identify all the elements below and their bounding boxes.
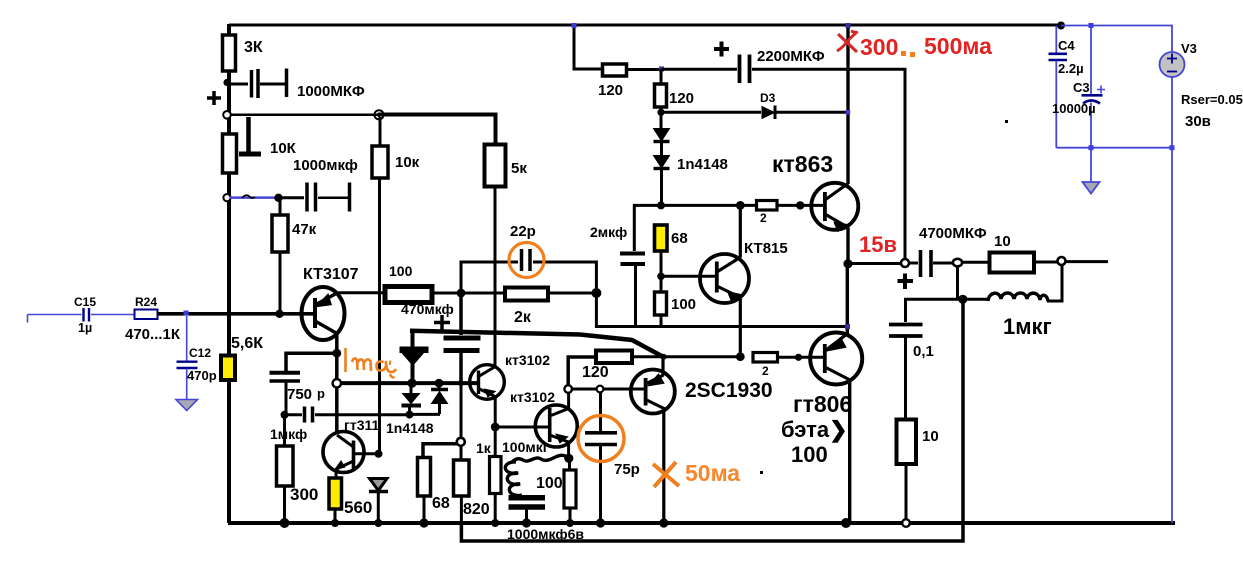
- svg-text:68: 68: [432, 495, 450, 512]
- capacitor 1000mkf6v: [507, 498, 584, 542]
- wire blue top: [1061, 26, 1172, 53]
- resistor 820: [454, 445, 490, 523]
- wire 120 to node: [627, 68, 663, 71]
- node open junction speaker out: [1058, 257, 1066, 265]
- capacitor 2mkf branch: [590, 205, 661, 326]
- node junction driver node X: [661, 354, 667, 360]
- svg-text:10: 10: [922, 428, 939, 445]
- svg-text:р: р: [317, 386, 325, 401]
- wire gt806 collector and emitter verticals: [845, 264, 850, 524]
- wire kt863 emitter to 15v node: [846, 228, 849, 264]
- wire blue bottom row: [1056, 145, 1174, 150]
- diode zener at 379: [369, 479, 388, 524]
- svg-text:30в: 30в: [1185, 113, 1211, 130]
- wire 2k to feedback node: [548, 292, 596, 295]
- svg-text:Rser=0.05: Rser=0.05: [1181, 92, 1243, 107]
- wire node383 row: [341, 381, 478, 385]
- resistor 10 output: [962, 233, 1034, 273]
- wire top positive rail: [229, 24, 1061, 27]
- svg-text:10к: 10к: [395, 154, 420, 171]
- svg-text:4700МКФ: 4700МКФ: [919, 225, 987, 242]
- svg-text:50ма: 50ма: [685, 460, 740, 486]
- svg-text:750: 750: [287, 386, 312, 403]
- wire blue link to 47k node: [230, 195, 276, 198]
- node open junction base drive: [564, 385, 572, 393]
- node junction 470mkf bottom on 383: [458, 380, 464, 439]
- wire input to C15: [28, 314, 82, 316]
- node junction dot with ring at 379,115: [374, 110, 383, 119]
- node junction 47k top: [274, 194, 282, 202]
- resistor 2k: [505, 288, 548, 327]
- svg-text:1000МКФ: 1000МКФ: [297, 83, 365, 100]
- inductor 100mkg: [502, 439, 569, 497]
- svg-text:68: 68: [671, 230, 688, 247]
- node junction kt863 base wire: [796, 201, 804, 209]
- svg-text:100: 100: [791, 442, 828, 467]
- node junction diode chain bottom: [657, 201, 665, 209]
- wire kt3102a emitter down: [494, 397, 497, 428]
- wire kt3102b collector up to node: [567, 392, 570, 409]
- ground symbol C3: [1083, 148, 1100, 194]
- resistor 120 driver: [582, 351, 632, 382]
- node open junction output: [901, 259, 909, 267]
- svg-text:1000мкф: 1000мкф: [293, 157, 358, 174]
- wire bias row to 5k: [230, 115, 496, 145]
- svg-text:КТ815: КТ815: [744, 240, 788, 257]
- node junction emitter 1k: [491, 423, 500, 432]
- annotation red 300 500ma: [860, 33, 992, 60]
- wire thick bias diagonal: [410, 331, 664, 357]
- resistor 120 vertical: [655, 69, 695, 112]
- wire C15 to R24: [91, 314, 134, 316]
- node open junction 197.6 blue: [223, 194, 230, 201]
- svg-text:1µ: 1µ: [78, 321, 92, 335]
- node junction 47k bottom on base wire: [275, 310, 283, 318]
- node junction 120 top: [659, 67, 664, 72]
- svg-text:100: 100: [536, 475, 563, 492]
- resistor 100 at 661: [655, 292, 697, 327]
- wire V3 negative down: [1171, 77, 1173, 523]
- resistor 100 emitter: [385, 263, 454, 317]
- svg-text:300: 300: [290, 485, 318, 504]
- annotation red cross 300-500ma: [837, 31, 858, 52]
- svg-text:22р: 22р: [510, 223, 536, 240]
- svg-text:5,6К: 5,6К: [231, 335, 263, 352]
- capacitor 1000MKF top: [228, 69, 365, 101]
- capacitor 1000mkf second: [282, 157, 358, 212]
- wire output stub: [1066, 260, 1109, 263]
- capacitor 75p with orange circle: [578, 392, 640, 523]
- capacitor C12 470p: [177, 316, 217, 399]
- capacitor C3 10000u: [1052, 26, 1105, 148]
- svg-text:47к: 47к: [292, 221, 317, 238]
- node junction emitter inductor: [564, 454, 573, 463]
- potentiometer 10K: [223, 117, 297, 173]
- svg-text:2: 2: [762, 364, 769, 378]
- svg-text:3К: 3К: [244, 39, 263, 56]
- wire drop from rail to 120: [574, 25, 602, 69]
- wire left rail vertical: [227, 24, 231, 523]
- resistor 2 lower: [753, 353, 778, 379]
- resistor 3K: [223, 35, 263, 71]
- wire node X to kt815 emitter node: [632, 355, 740, 358]
- node open junction zobel ground: [902, 519, 910, 527]
- wire KT3107 emitter to 100 resistor: [337, 291, 385, 294]
- transistor kt3102 first: [470, 352, 551, 399]
- wire jog to 68 resistor: [423, 444, 457, 457]
- svg-text:820: 820: [463, 501, 490, 518]
- wire 2ohm to kt863 base: [777, 204, 824, 207]
- wire node to 2ohm: [661, 204, 756, 207]
- svg-text:100мкг: 100мкг: [502, 439, 549, 455]
- node junction below 3K: [223, 79, 230, 86]
- port input tick: [27, 315, 29, 323]
- svg-text:100: 100: [671, 296, 696, 313]
- resistor 120 supply: [598, 64, 627, 99]
- wire KT3107 collector down: [335, 334, 339, 434]
- node junction bottom rail dots: [280, 518, 852, 528]
- wire kt863 collector rail: [846, 23, 851, 184]
- node junction rail end: [1057, 22, 1065, 30]
- svg-text:2мкф: 2мкф: [590, 224, 627, 240]
- svg-text:гт311: гт311: [344, 417, 379, 433]
- svg-text:C15: C15: [74, 295, 96, 309]
- svg-text:бэта❯: бэта❯: [781, 417, 848, 443]
- resistor 560 yellow: [329, 470, 372, 523]
- node blue speck D3 junction: [846, 110, 851, 115]
- node junction kt815 emitter bottom: [736, 352, 745, 361]
- transistor gt311 pnp: [323, 417, 379, 473]
- wire gt311 base to 379 rail: [354, 450, 383, 458]
- node open junction KT3107 collector to wire383: [333, 379, 341, 387]
- svg-text:C3: C3: [1073, 80, 1090, 95]
- transistor gt806 pnp: [781, 333, 862, 468]
- wire base node to 2SC1930: [572, 388, 645, 391]
- svg-text:1000мкф6в: 1000мкф6в: [507, 526, 584, 542]
- node junction collector 750p tap: [332, 349, 341, 358]
- annotation red 15v: [859, 232, 897, 257]
- svg-text:300: 300: [860, 34, 898, 60]
- resistor 10k second: [372, 117, 420, 453]
- transistor 2SC1930: [631, 370, 773, 414]
- inductor 1mkg parallel: [958, 265, 1063, 339]
- annotation stray dots: [600, 120, 1008, 474]
- resistor 68 lower: [418, 458, 450, 524]
- wire to 750p: [286, 353, 337, 371]
- wire to kt815 base: [661, 275, 717, 278]
- node open junction at 114.5: [223, 111, 231, 119]
- resistor 68 yellow: [655, 225, 688, 292]
- svg-text:2: 2: [760, 211, 767, 225]
- annotation orange cross 50ma: [653, 460, 740, 487]
- annotation orange 1ma handwritten: [346, 348, 397, 377]
- capacitor C15 1u: [74, 295, 96, 335]
- node junction D1 bottom: [407, 379, 416, 388]
- svg-text:кт863: кт863: [772, 151, 833, 177]
- diode D3 lower right up: [386, 379, 448, 436]
- diode pair 1n4148 series: [654, 112, 728, 204]
- capacitor 2200MKF: [662, 42, 905, 261]
- svg-text:470...1К: 470...1К: [125, 326, 181, 343]
- resistor R24 470...1K: [125, 295, 181, 343]
- svg-text:10К: 10К: [270, 140, 297, 157]
- resistor 300: [277, 415, 319, 523]
- svg-text:120: 120: [598, 82, 623, 99]
- node junction 22p left tap: [457, 289, 466, 298]
- wire 2SC1930 emitter up collector down: [661, 357, 665, 523]
- svg-text:C12: C12: [189, 346, 211, 360]
- capacitor 4700MKF: [898, 225, 987, 289]
- resistor 10 zobel: [897, 420, 939, 524]
- diode D3: [661, 91, 847, 119]
- svg-text:V3: V3: [1181, 41, 1197, 56]
- capacitor C4 2.2u: [1049, 26, 1084, 148]
- resistor 2 upper: [757, 201, 778, 226]
- wire bottom ground rail: [228, 521, 1175, 525]
- resistor 100 bottom: [536, 458, 576, 523]
- capacitor 1mkf: [270, 407, 409, 443]
- diode D2 lower left: [402, 383, 422, 415]
- resistor 5k: [485, 145, 528, 368]
- svg-text:2к: 2к: [514, 309, 532, 326]
- svg-text:120: 120: [582, 364, 609, 381]
- node junction feedback: [591, 288, 601, 298]
- svg-text:470p: 470p: [187, 368, 217, 383]
- node junction diode pair bottoms: [406, 411, 441, 419]
- svg-text:1к: 1к: [476, 440, 492, 456]
- capacitor 0.1 zobel: [889, 299, 963, 419]
- svg-text:C4: C4: [1058, 38, 1075, 53]
- svg-text:10: 10: [994, 233, 1011, 250]
- resistor 1k: [476, 427, 501, 523]
- node junction 15v: [843, 259, 852, 268]
- wire 2ohm to gt806 base: [778, 354, 825, 361]
- transistor kt3102 second: [510, 389, 577, 447]
- svg-text:1n4148: 1n4148: [386, 420, 434, 436]
- capacitor 22p with orange circle: [461, 223, 596, 293]
- svg-text:КТ3107: КТ3107: [303, 266, 359, 283]
- svg-text:0,1: 0,1: [913, 343, 934, 360]
- svg-text:500ма: 500ма: [924, 33, 992, 59]
- node junction 750p bottom 300 top: [281, 411, 289, 419]
- capacitor 750p: [270, 373, 326, 413]
- svg-text:2200МКФ: 2200МКФ: [757, 48, 825, 65]
- svg-text:560: 560: [344, 498, 372, 517]
- svg-text:120: 120: [669, 90, 694, 107]
- svg-text:1мкг: 1мкг: [1003, 314, 1052, 339]
- svg-text:D3: D3: [760, 91, 776, 105]
- node blue speck on input wire: [184, 311, 189, 316]
- svg-text:5к: 5к: [511, 160, 527, 177]
- wire kt3102b emitter down: [567, 442, 570, 457]
- wire to kt3102b base: [495, 426, 549, 429]
- wire 100 to 2k: [432, 292, 505, 295]
- transistor KT815 npn: [700, 240, 788, 303]
- node junction kt815 collector top: [736, 201, 745, 210]
- resistor 5.6K yellow: [221, 335, 263, 380]
- diode D1 bias: [400, 331, 429, 382]
- voltage source V3: [1160, 41, 1243, 130]
- node junction cap out: [953, 259, 962, 267]
- svg-text:1мкф: 1мкф: [270, 426, 307, 442]
- svg-text:R24: R24: [135, 295, 157, 309]
- wire second ground return: [461, 299, 963, 541]
- node junction kt815 base tap: [657, 273, 665, 281]
- node open junction 75p tap: [597, 386, 604, 393]
- node blue square C3 top: [1089, 23, 1094, 28]
- node open junction above 820: [457, 438, 465, 446]
- svg-text:кт3102: кт3102: [505, 352, 550, 368]
- wire kt815 collector up emitter down: [739, 205, 742, 356]
- plus sign supply polarity: [207, 91, 221, 105]
- wire R24 to base node black: [158, 312, 316, 316]
- svg-text:2SC1930: 2SC1930: [685, 379, 773, 402]
- wire 15v node to cap: [848, 262, 901, 265]
- wire L from node up to 120: [568, 357, 596, 386]
- node blue speck top rail left: [572, 23, 577, 28]
- svg-text:кт3102: кт3102: [510, 389, 555, 405]
- svg-text:100: 100: [389, 263, 413, 279]
- wire feedback down and across to output: [596, 293, 847, 327]
- wire 10 to out node: [1034, 261, 1059, 264]
- svg-text:15в: 15в: [859, 232, 897, 257]
- transistor kt863 npn: [772, 151, 858, 231]
- ground symbol input: [176, 400, 198, 411]
- svg-text:1n4148: 1n4148: [677, 156, 728, 173]
- svg-text:75р: 75р: [614, 461, 640, 478]
- svg-text:гт806: гт806: [793, 391, 852, 417]
- svg-text:10000µ: 10000µ: [1052, 101, 1096, 116]
- resistor 47k: [272, 200, 317, 312]
- transistor KT3107 pnp: [302, 266, 359, 340]
- svg-text:470мкф: 470мкф: [401, 301, 454, 317]
- capacitor 470mkf electrolytic: [434, 295, 481, 383]
- svg-text:2.2µ: 2.2µ: [1058, 61, 1084, 76]
- node junction D3 branch: [657, 109, 664, 116]
